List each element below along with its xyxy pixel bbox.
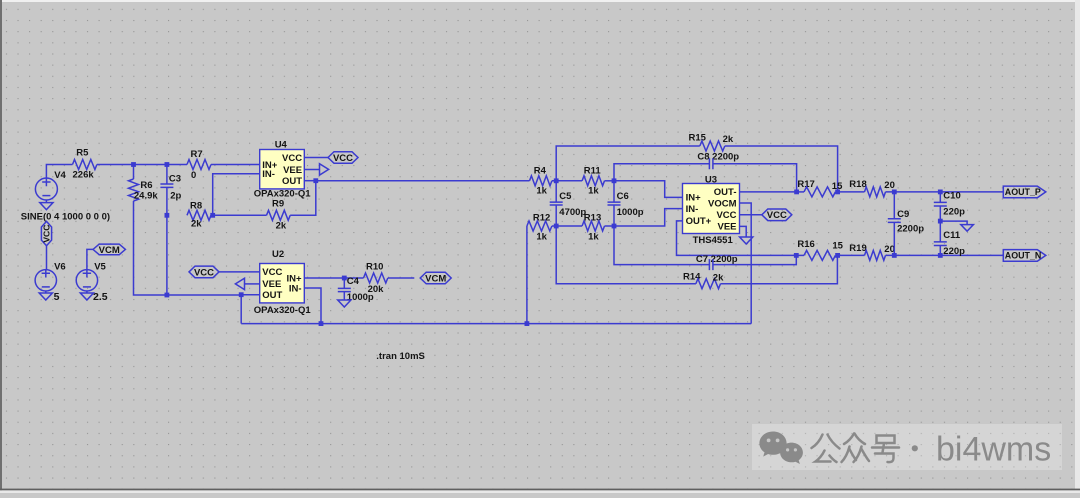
svg-text:C10: C10 — [943, 191, 960, 202]
wire R14 to bottom node — [721, 255, 838, 283]
svg-text:2k: 2k — [276, 221, 287, 232]
resistor R19 — [865, 250, 886, 260]
wire node B to C6 — [613, 181, 615, 202]
svg-text:AOUT_N: AOUT_N — [1005, 251, 1042, 261]
wire R8 right — [211, 214, 213, 216]
svg-text:VCC: VCC — [194, 267, 214, 278]
svg-text:1k: 1k — [536, 231, 547, 242]
svg-text:VCC: VCC — [333, 153, 353, 164]
svg-text:20: 20 — [884, 180, 895, 191]
svg-text:bi4wms: bi4wms — [936, 431, 1051, 469]
svg-text:15: 15 — [832, 241, 843, 252]
svg-text:2k: 2k — [723, 134, 734, 145]
svg-text:R15: R15 — [689, 132, 707, 143]
resistor R9 — [267, 210, 291, 220]
svg-text:OUT: OUT — [262, 290, 282, 301]
svg-text:R4: R4 — [534, 165, 547, 176]
svg-text:VCC: VCC — [716, 210, 736, 221]
resistor R14 — [696, 279, 721, 289]
wire U2 OUT down — [240, 295, 242, 324]
wire R7 to U4 IN+ — [211, 164, 260, 166]
svg-text:VCC: VCC — [42, 225, 52, 243]
op-amp U2 — [260, 264, 305, 303]
wire R10 to VCM flag — [388, 277, 415, 279]
wire R12 to R13 — [552, 225, 582, 227]
wire V5 to ground — [86, 291, 88, 293]
resistor R17 — [804, 187, 835, 197]
svg-text:2200p: 2200p — [897, 224, 924, 235]
junction R6 top — [131, 162, 136, 167]
wire U3 OUT+ — [677, 221, 797, 256]
wire U2 VEE — [245, 283, 260, 285]
wire C8 to OUT- node — [713, 164, 797, 192]
ground mid node — [961, 225, 974, 232]
svg-text:IN+: IN+ — [686, 193, 702, 204]
svg-text:R18: R18 — [849, 179, 866, 190]
op-amp U4 — [260, 150, 305, 189]
watermark text 公众号 (drawn strokes) — [812, 434, 900, 463]
resistor R5 — [73, 160, 97, 170]
svg-text:U4: U4 — [275, 139, 288, 150]
ground below V6 — [39, 293, 52, 300]
junction R16-R19 — [835, 253, 840, 258]
wire U2 IN- down — [304, 288, 321, 324]
wire V4 top to R5 — [46, 165, 72, 179]
net flag VCM (VCM flag at R10) — [420, 272, 451, 284]
wire R19 to AOUT_N — [886, 254, 1004, 256]
wire C5 bottom — [555, 205, 557, 226]
svg-text:2p: 2p — [170, 190, 181, 201]
node A junction — [554, 178, 559, 183]
wire R9 to OUT node — [290, 181, 316, 216]
svg-text:24.9k: 24.9k — [134, 190, 158, 201]
wire R16 to R19 — [835, 254, 864, 256]
junction R8-R9 — [210, 213, 215, 218]
svg-text:AOUT_P: AOUT_P — [1005, 187, 1041, 197]
svg-text:2k: 2k — [191, 219, 202, 230]
resistor R10 — [364, 273, 388, 283]
svg-text:V6: V6 — [54, 261, 66, 272]
wire to U4 IN- — [213, 174, 260, 216]
wire V6 to ground — [45, 291, 47, 293]
svg-text:1k: 1k — [536, 186, 547, 197]
output port AOUT_P (AOUT_P flag) — [1003, 186, 1046, 198]
svg-text:OUT+: OUT+ — [686, 216, 712, 227]
junction OUT- node — [794, 190, 799, 195]
junction C9 bottom — [892, 253, 897, 258]
svg-text:226k: 226k — [73, 169, 95, 180]
wire R13 to node D — [605, 225, 615, 227]
svg-text:C5: C5 — [559, 191, 572, 202]
wire U4 OUT — [304, 180, 316, 182]
net flag VCM (at V5) — [93, 244, 125, 255]
svg-text:VEE: VEE — [717, 222, 736, 233]
svg-text:5: 5 — [54, 291, 60, 303]
junction C10 top — [938, 190, 943, 195]
wire to R17 — [797, 191, 804, 193]
screen edge strips — [0, 0, 1080, 2]
resistor R11 — [582, 176, 604, 186]
capacitor C3 — [160, 184, 173, 187]
ground below V5 — [80, 293, 93, 300]
svg-text:VCC: VCC — [262, 267, 282, 278]
wire U3 VOCM down — [740, 203, 752, 324]
svg-text:R12: R12 — [533, 212, 550, 223]
svg-text:0: 0 — [191, 170, 196, 181]
net flag VCC (vertical) — [41, 221, 51, 245]
svg-text:1000p: 1000p — [617, 207, 644, 218]
svg-text:2k: 2k — [713, 272, 724, 283]
wire U2 VCC — [219, 271, 260, 273]
wire R15 to output node — [725, 146, 838, 192]
node B junction — [612, 178, 617, 183]
svg-text:OUT-: OUT- — [714, 187, 737, 198]
wire node A up to R15 — [556, 146, 700, 181]
svg-text:OUT: OUT — [282, 176, 302, 187]
svg-text:VCM: VCM — [99, 245, 120, 256]
svg-text:C8 2200p: C8 2200p — [697, 151, 739, 162]
wire U4 VEE — [304, 169, 319, 171]
junction U4 OUT — [313, 178, 318, 183]
wire R5 to R7 — [97, 164, 187, 166]
wire node B to U3 IN+ — [614, 181, 683, 198]
junction C11 bottom — [938, 253, 943, 258]
svg-text:VEE: VEE — [262, 279, 281, 290]
svg-text:R9: R9 — [272, 199, 284, 210]
wire C7 to OUT+ node — [713, 255, 796, 264]
resistor R16 — [804, 250, 835, 260]
resistor R15 — [700, 141, 725, 151]
svg-text:2.5: 2.5 — [93, 291, 108, 303]
wire C6 bottom — [613, 205, 615, 226]
svg-text:THS4551: THS4551 — [693, 235, 734, 246]
wire U4 VCC — [304, 157, 328, 159]
wire to C4 — [343, 278, 345, 288]
wire node D to U3 IN- — [614, 209, 683, 226]
svg-text:R5: R5 — [76, 147, 89, 158]
junction C3 top — [165, 162, 170, 167]
capacitor C4 — [338, 288, 351, 291]
wire R17 to R18 — [835, 191, 864, 193]
resistor R8 — [187, 210, 211, 220]
capacitor C11 — [934, 242, 947, 246]
wire C11 bottom — [939, 246, 941, 256]
node C junction — [554, 224, 559, 229]
resistor R6 — [129, 179, 139, 201]
voltage source V6 — [35, 270, 56, 291]
svg-text:C4: C4 — [347, 276, 360, 287]
svg-text:OPAx320-Q1: OPAx320-Q1 — [254, 188, 312, 199]
VEE no-connect arrow (U4) — [320, 164, 329, 175]
svg-text:U3: U3 — [705, 174, 717, 185]
wire node C down to R14 — [556, 226, 696, 284]
wire U3 OUT- — [740, 191, 797, 193]
VEE no-connect arrow (U2) — [235, 278, 244, 289]
svg-text:R10: R10 — [366, 261, 383, 272]
svg-text:VCC: VCC — [282, 153, 302, 164]
wire U4 OUT to R4 — [316, 180, 530, 182]
wire V5 to VCM flag — [87, 249, 93, 269]
wire VCM buffer rail — [241, 323, 751, 325]
watermark separator dot — [912, 445, 918, 451]
ground C4 — [338, 300, 351, 307]
wire R18 to AOUT_P — [886, 191, 1004, 193]
junction R17-R18 — [835, 190, 840, 195]
wire U3 VEE — [740, 226, 747, 237]
ground U3 VEE — [740, 237, 753, 244]
svg-text:OPAx320-Q1: OPAx320-Q1 — [254, 305, 312, 316]
resistor R7 — [187, 160, 211, 170]
capacitor C7 — [709, 259, 713, 270]
wire R12 to VCM rail — [526, 226, 528, 324]
svg-text:R16: R16 — [797, 239, 814, 250]
wire node A to C5 — [555, 181, 557, 202]
svg-text:20k: 20k — [368, 284, 385, 295]
svg-text:R19: R19 — [849, 243, 866, 254]
wire C10 bottom — [939, 206, 941, 221]
junction C4 top — [342, 276, 347, 281]
wire node B up to C8 — [614, 164, 709, 181]
svg-text:SINE(0 4 1000 0 0 0): SINE(0 4 1000 0 0 0) — [21, 211, 110, 222]
wire to C10 — [939, 192, 941, 203]
capacitor C8 — [709, 158, 713, 169]
voltage source V4 — [35, 178, 57, 200]
net flag VCC (U2 VCC flag) — [189, 266, 219, 278]
wire V4 to ground — [45, 200, 47, 203]
svg-text:C7 2200p: C7 2200p — [696, 254, 738, 265]
svg-text:IN-: IN- — [686, 204, 699, 215]
svg-text:VCM: VCM — [425, 273, 446, 284]
wire U3 VCC — [740, 214, 763, 216]
junction C9 top — [892, 190, 897, 195]
wire to R16 — [796, 254, 804, 256]
wire to R9 — [213, 214, 267, 216]
capacitor C5 — [550, 202, 563, 205]
wire C3 bottom — [166, 187, 168, 295]
node D junction — [612, 224, 617, 229]
svg-text:1k: 1k — [588, 231, 599, 242]
wire C9 bottom — [893, 222, 895, 255]
net flag VCC (U3 VCC flag) — [762, 209, 792, 221]
svg-text:V5: V5 — [94, 261, 106, 272]
wire R4 to R11 — [552, 180, 582, 182]
svg-text:VOCM: VOCM — [708, 198, 737, 209]
resistor R4 — [530, 176, 552, 186]
wire node D down to C7 — [614, 226, 709, 265]
svg-text:IN-: IN- — [289, 283, 302, 294]
WeChat icon — [759, 431, 803, 464]
junction U2 OUT — [239, 292, 244, 297]
watermark band — [752, 424, 1062, 470]
svg-text:C6: C6 — [617, 191, 629, 202]
net flag VCC (U4 VCC flag) — [328, 152, 358, 164]
wire R11 to node B — [605, 180, 615, 182]
junction C10-C11 mid — [938, 219, 943, 224]
capacitor C6 — [608, 202, 621, 205]
svg-text:4700p: 4700p — [559, 207, 586, 218]
resistor R12 — [527, 221, 552, 231]
svg-text:C3: C3 — [169, 174, 181, 185]
ground below V4 — [40, 203, 53, 210]
junction IN- rail — [319, 321, 324, 326]
wire R6 bottom rail — [134, 201, 242, 295]
svg-text:1k: 1k — [588, 186, 599, 197]
wire to U2 OUT pin — [241, 294, 260, 296]
capacitor C10 — [934, 202, 947, 206]
svg-text:R8: R8 — [190, 201, 202, 212]
wire U2 IN+ to R10 — [304, 277, 363, 279]
svg-text:R7: R7 — [191, 149, 203, 160]
voltage source V5 — [76, 270, 97, 291]
capacitor C9 — [888, 219, 901, 223]
wire to C11 — [939, 221, 941, 242]
wire to C3 — [166, 165, 168, 185]
wire C4 to ground — [343, 292, 345, 300]
junction R8 left — [165, 213, 170, 218]
wire to R6 — [133, 165, 135, 180]
wire to C9 — [893, 192, 895, 219]
junction bottom rail — [165, 293, 170, 298]
svg-text:220p: 220p — [943, 246, 965, 257]
resistor R18 — [865, 187, 886, 197]
svg-text:U2: U2 — [272, 249, 284, 260]
wire VCC flag to V6 — [46, 246, 48, 270]
output port AOUT_N (AOUT_N flag) — [1003, 250, 1046, 262]
op-amp U3 — [683, 184, 740, 234]
junction R12 rail — [525, 321, 530, 326]
junction OUT+ node — [794, 253, 799, 258]
svg-text:V4: V4 — [54, 170, 66, 181]
resistor R13 — [582, 221, 604, 231]
svg-text:VEE: VEE — [283, 165, 302, 176]
svg-text:IN-: IN- — [262, 169, 275, 180]
svg-text:VCC: VCC — [767, 210, 787, 221]
svg-text:.tran 10mS: .tran 10mS — [376, 351, 425, 362]
svg-text:220p: 220p — [943, 207, 965, 218]
wire mid node to ground — [940, 221, 967, 225]
svg-text:C11: C11 — [943, 230, 961, 241]
